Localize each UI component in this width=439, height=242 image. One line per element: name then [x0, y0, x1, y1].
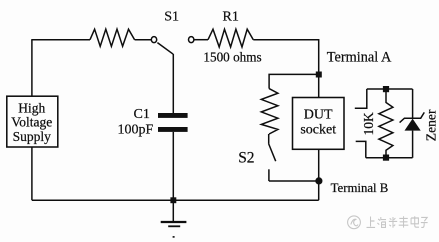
svg-text:C1: C1	[134, 107, 150, 122]
wire (S1 right contact to R1)	[194, 39, 208, 41]
switch S2	[269, 134, 276, 181]
svg-text:socket: socket	[300, 123, 336, 138]
node Terminal B (junction dot)	[315, 177, 322, 184]
svg-text:Zener: Zener	[424, 109, 439, 141]
svg-text:DUT: DUT	[304, 108, 333, 123]
junction (10K top)	[383, 86, 389, 92]
svg-text:Terminal B: Terminal B	[331, 181, 389, 195]
switch S1	[151, 37, 194, 55]
wire (HV supply bottom lead)	[31, 147, 33, 200]
wire (HV supply top to top rail)	[31, 40, 33, 96]
wire (DUT socket bottom to bottom rail)	[318, 149, 320, 200]
wire (branch from Terminal A node to left resistor)	[269, 74, 319, 88]
label High Voltage Supply	[11, 100, 52, 143]
svg-text:Terminal A: Terminal A	[327, 50, 392, 66]
watermark logo	[348, 216, 361, 229]
wire (resistor to S1)	[135, 39, 152, 41]
wire (R1 to Terminal A corner, down to DUT socket)	[253, 40, 318, 98]
resistor (series charging resistor)	[90, 29, 135, 46]
svg-text:1500 ohms: 1500 ohms	[203, 50, 261, 65]
svg-text:Supply: Supply	[13, 129, 52, 144]
svg-text:Voltage: Voltage	[11, 115, 52, 130]
watermark text 上海犇丰电子	[367, 216, 428, 228]
svg-text:10K: 10K	[361, 112, 376, 136]
node Terminal A (junction dot)	[316, 72, 322, 78]
wire (top rail left segment)	[31, 39, 90, 41]
junction (ground node)	[170, 197, 176, 203]
capacitor C1	[158, 113, 188, 132]
zener diode	[400, 89, 425, 158]
wire (bottom rail)	[32, 199, 319, 201]
wire (S1 arm down to C1 top plate)	[172, 54, 174, 113]
junction (10K bottom)	[383, 155, 389, 161]
resistor R1	[208, 29, 253, 47]
wire (network bottom rail)	[366, 157, 413, 159]
svg-text:High: High	[18, 100, 45, 115]
wire (network top rail)	[367, 88, 413, 90]
svg-text:100pF: 100pF	[118, 122, 154, 137]
svg-text:S2: S2	[238, 149, 254, 166]
resistor (series limiting resistor above S2)	[261, 89, 278, 134]
svg-text:R1: R1	[223, 10, 239, 25]
resistor 10K	[379, 92, 393, 158]
wire (C1 bottom plate to bottom rail)	[172, 132, 174, 200]
ground	[161, 200, 187, 237]
wire (DUT socket pin to 10K network, bottom stub)	[356, 141, 366, 157]
high voltage supply box	[7, 96, 58, 147]
wire (DUT socket pin to 10K network, top stub)	[355, 89, 367, 108]
wire (S2 bottom contact to Terminal B node)	[269, 180, 319, 182]
svg-text:S1: S1	[164, 10, 179, 25]
label DUT socket	[300, 108, 336, 138]
DUT socket box	[293, 98, 345, 150]
